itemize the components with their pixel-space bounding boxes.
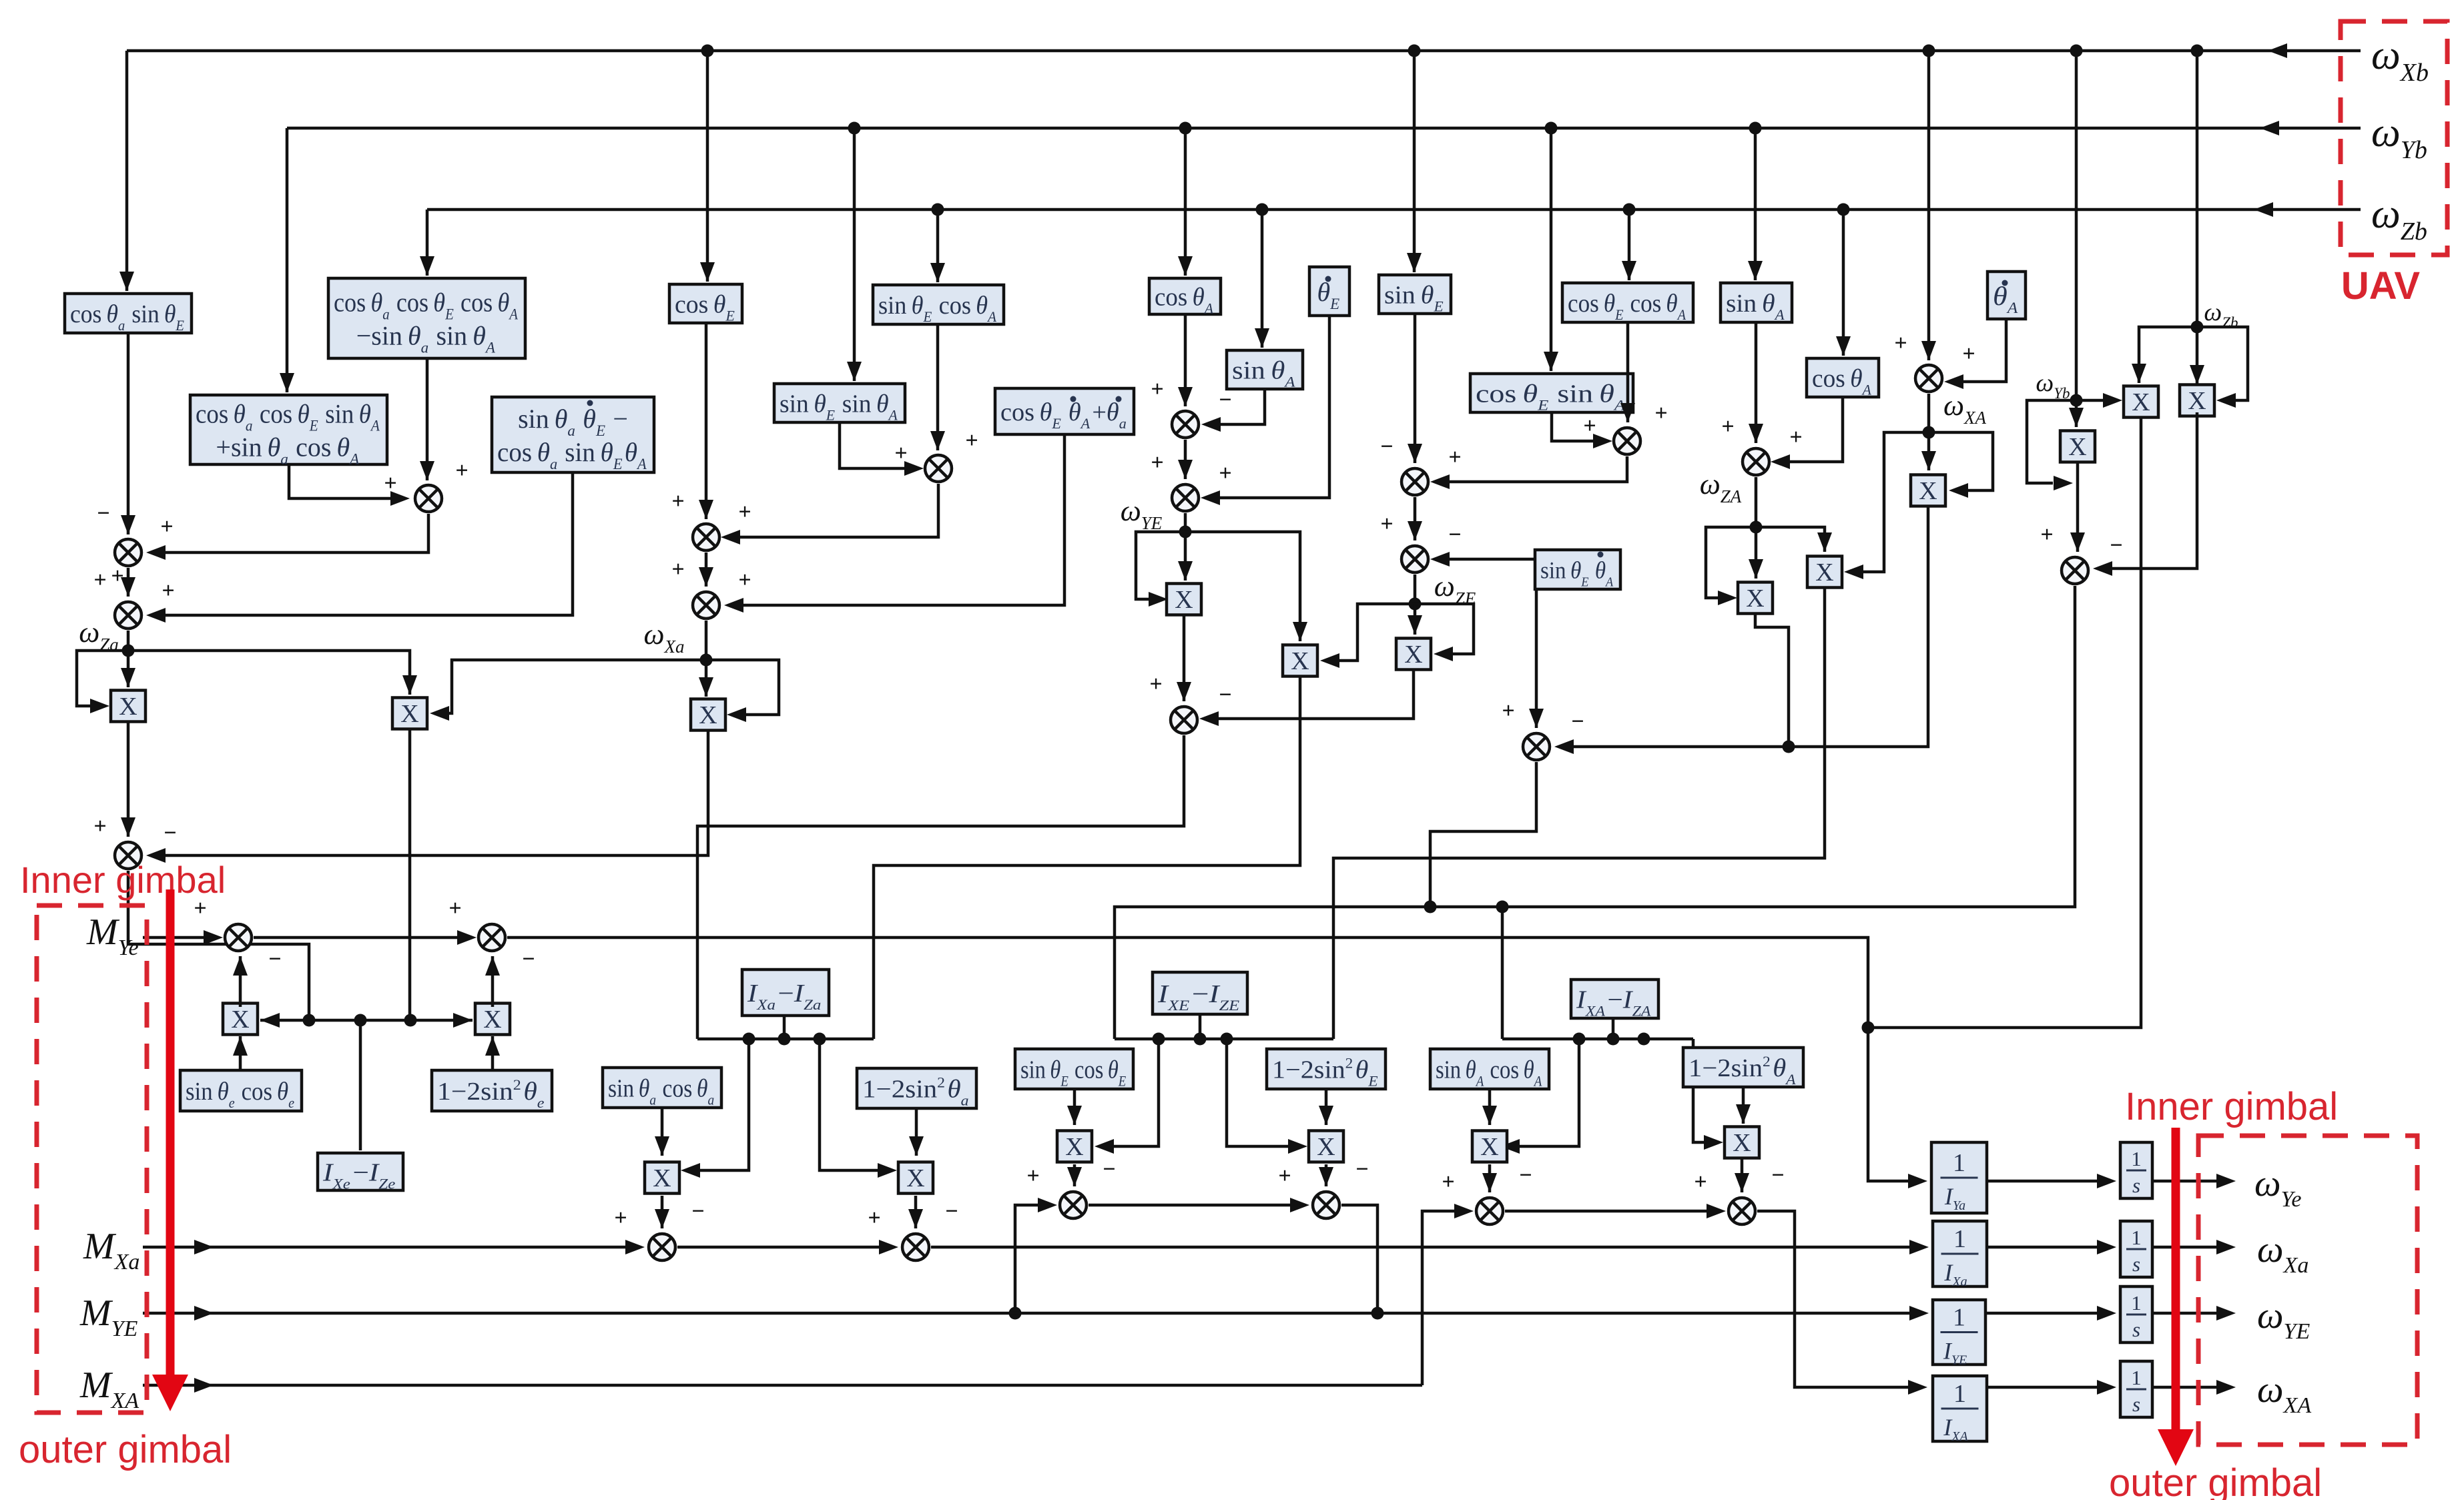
multiplier XA1b xyxy=(1472,1131,1507,1162)
wire S13 output / line C xyxy=(1115,586,2075,1039)
wire S15 output to busE xyxy=(128,871,309,1018)
wire XA2b into S24 xyxy=(1741,1158,1744,1192)
svg-text:+: + xyxy=(1380,512,1393,536)
svg-text:+: + xyxy=(448,896,461,921)
svg-text:X: X xyxy=(1919,477,1937,505)
multiplier XZA2 (wZA^2) xyxy=(1738,583,1773,614)
multiplier Xe2 xyxy=(475,1004,510,1035)
svg-text:X: X xyxy=(231,1006,249,1034)
svg-text:+: + xyxy=(1151,450,1163,475)
svg-text:−: − xyxy=(945,1199,958,1224)
wire S3 to node Za xyxy=(127,631,130,651)
wire drop to B16 xyxy=(1550,128,1553,371)
wire S1 to S2 xyxy=(164,514,428,552)
wire drop omega_Zb vertical xyxy=(2196,51,2199,327)
wire 1/s to wXa out xyxy=(2152,1246,2220,1249)
wire B9 to S11 xyxy=(1755,322,1758,443)
node dots on bus e xyxy=(303,1014,316,1027)
block B30 IXA-IZA xyxy=(1571,980,1658,1018)
label inner gimbal left dashed box xyxy=(37,905,147,1413)
wire B23 into Xa2 xyxy=(915,1108,918,1156)
svg-text:s: s xyxy=(2132,1393,2140,1416)
svg-text:+: + xyxy=(1278,1164,1291,1188)
wire drop to B4 xyxy=(936,210,940,282)
wire S25 to S4 xyxy=(738,484,938,537)
wire XA down into XXA2 xyxy=(1927,432,1931,470)
wire B25 into XE1b xyxy=(1073,1089,1076,1125)
node dots on bus A xyxy=(743,1033,755,1046)
wire drop to sum S12 xyxy=(1927,51,1931,360)
wire S9 to node ZE xyxy=(1414,575,1417,604)
svg-text:+: + xyxy=(1442,1170,1454,1194)
node omega_XA junction xyxy=(1923,426,1935,439)
wire omega_Xb bus xyxy=(127,49,2361,53)
label UAV dashed box xyxy=(2341,21,2447,255)
wire B18 to S9 xyxy=(1448,558,1535,561)
svg-text:−: − xyxy=(1571,709,1584,734)
svg-text:X: X xyxy=(1317,1133,1335,1161)
wire 1/IYa to 1/s xyxy=(1987,1180,2100,1183)
wire drop to cos-sin box B1 xyxy=(125,51,129,291)
wire M_Ye lead xyxy=(143,936,207,940)
wire B6 to S7 xyxy=(1218,316,1329,498)
wire B15 to S6 xyxy=(1217,389,1265,424)
wire XZb2 output to S13 xyxy=(2110,412,2197,569)
wire B3 to S4 xyxy=(705,323,708,519)
svg-text:1: 1 xyxy=(1953,1149,1965,1177)
wire 1/IXa to 1/s xyxy=(1987,1246,2100,1249)
svg-text:s: s xyxy=(2132,1252,2140,1276)
node join on MYe feed xyxy=(1862,1022,1875,1034)
svg-text:−: − xyxy=(1219,388,1231,412)
svg-text:−: − xyxy=(691,1199,704,1224)
wire B11 output xyxy=(289,464,394,498)
wire M_YE row xyxy=(143,1312,1911,1315)
svg-text:1: 1 xyxy=(2131,1147,2142,1170)
block B20 1-2sin2e xyxy=(432,1070,552,1111)
svg-text:X: X xyxy=(1175,586,1193,614)
wire S21 to S22 xyxy=(1089,1204,1293,1207)
wire M_Ye long run xyxy=(507,937,1910,1181)
svg-text:+: + xyxy=(868,1206,880,1230)
wire buse stem to B21 xyxy=(359,1020,362,1150)
block B1 cos(a)sin(E) xyxy=(65,294,192,333)
svg-text:+: + xyxy=(1219,461,1231,486)
wire XA1b into S23 xyxy=(1488,1164,1492,1192)
wire Xa loop left into X2 xyxy=(446,660,706,713)
wire riser to bus AA xyxy=(1501,907,1504,1039)
node omega_Yb junction xyxy=(2070,394,2083,407)
block B16 cosEsinA xyxy=(1470,374,1633,412)
svg-text:+: + xyxy=(384,471,396,496)
svg-text:X: X xyxy=(400,700,418,728)
block 1/s YE xyxy=(2120,1286,2152,1343)
node omega_YE junction xyxy=(1179,526,1192,538)
svg-text:−: − xyxy=(1219,683,1231,707)
sum S15 xyxy=(115,842,141,869)
block 1/IYa xyxy=(1931,1142,1987,1213)
block 1/IXa xyxy=(1933,1221,1987,1286)
wire B4 to S25 xyxy=(936,324,940,450)
wire bus I_Xa-I_Za xyxy=(697,1038,874,1041)
svg-text:+: + xyxy=(1502,699,1514,723)
multiplier XZ2 (wZE^2) xyxy=(1396,639,1431,670)
svg-text:+: + xyxy=(738,568,751,593)
svg-text:Inner gimbal: Inner gimbal xyxy=(20,859,226,901)
block 1/s Xa xyxy=(2120,1221,2152,1277)
svg-text:+: + xyxy=(1026,1164,1039,1188)
wire ZE down into XZ2 xyxy=(1414,604,1417,635)
svg-text:s: s xyxy=(2132,1318,2140,1341)
node junctions on omega_Zb bus xyxy=(932,204,944,216)
sum S25 xyxy=(925,455,952,482)
wire drop to B8 xyxy=(1628,210,1631,280)
wire XE1b into S21 xyxy=(1073,1164,1076,1186)
wire B7 to S8 xyxy=(1414,314,1417,463)
svg-text:+: + xyxy=(111,564,123,589)
block B18 sinE dA xyxy=(1535,550,1620,589)
wire busE2 stem to B27 xyxy=(1199,1016,1202,1039)
wire Xa down into X3 xyxy=(705,660,708,697)
node omega_Zb junction xyxy=(2191,321,2204,334)
wire B16 to S10 xyxy=(1552,412,1596,441)
svg-text:−: − xyxy=(97,501,109,526)
wire S19 to S20 xyxy=(677,1246,882,1249)
sum S13 xyxy=(2062,557,2088,584)
svg-text:+: + xyxy=(1789,425,1802,450)
node junctions on omega_Yb bus xyxy=(848,122,861,135)
wire ZE loop right into XZ2 xyxy=(1415,604,1474,654)
sum S19 xyxy=(649,1234,675,1260)
wire ZA right to XZAXA top xyxy=(1756,527,1825,552)
wire S8 to S9 xyxy=(1414,497,1417,540)
wire busA drop to Xa2 xyxy=(820,1039,881,1170)
svg-text:1: 1 xyxy=(2131,1291,2142,1315)
wire S22 down to MYE row xyxy=(1341,1205,1377,1313)
svg-text:+: + xyxy=(455,458,468,483)
node junctions on omega_Xb bus xyxy=(701,45,714,57)
svg-text:+: + xyxy=(614,1206,627,1230)
svg-text:+: + xyxy=(1448,445,1461,470)
wire busE2 drop to XE2b xyxy=(1227,1039,1291,1146)
block B29 1-2sin2A xyxy=(1683,1048,1803,1087)
wire bus I_XA-I_ZA xyxy=(1502,1038,1693,1041)
block B28 sinA cosA xyxy=(1430,1049,1549,1089)
wire S23 to S24 xyxy=(1505,1210,1710,1213)
svg-text:+: + xyxy=(738,500,751,524)
svg-text:X: X xyxy=(1733,1129,1751,1157)
svg-text:+: + xyxy=(1583,414,1596,438)
sum S16 xyxy=(1523,733,1550,760)
svg-text:+: + xyxy=(965,428,978,453)
wire ZA loop left into XZA2 xyxy=(1706,527,1756,598)
block B4 sinEcosA xyxy=(873,285,1004,324)
svg-text:X: X xyxy=(2188,387,2206,415)
wire busAA stem to B30 xyxy=(1612,1020,1615,1039)
label inner gimbal right dashed box xyxy=(2198,1136,2417,1445)
svg-text:X: X xyxy=(906,1164,924,1192)
wire busA drop to Xa1 xyxy=(698,1039,749,1170)
wire Xe2 up into S18 xyxy=(491,956,495,1007)
wire Yb loop left xyxy=(2027,400,2076,483)
block 1/s XA xyxy=(2120,1361,2152,1417)
wire bus I_XE-I_ZE xyxy=(1115,1038,1333,1041)
wire XZ2 output to S14 xyxy=(1217,670,1414,719)
svg-text:1: 1 xyxy=(1953,1225,1966,1253)
wire B10 to S12 xyxy=(1961,319,2006,382)
svg-text:X: X xyxy=(1065,1133,1083,1161)
block B25 sinE cosE xyxy=(1015,1049,1133,1089)
svg-text:outer gimbal: outer gimbal xyxy=(2109,1461,2322,1500)
node omega_Za junction xyxy=(122,645,135,657)
sum S11 xyxy=(1743,448,1769,475)
block B19 sine cose xyxy=(180,1070,302,1111)
wire B12 output to S3 xyxy=(164,472,573,615)
block B24 IXa-IZa xyxy=(742,970,829,1016)
node taps on MYE row xyxy=(1009,1307,1022,1320)
wire Zb loop left to XYbZb top xyxy=(2139,327,2197,383)
svg-text:1: 1 xyxy=(1953,1304,1965,1332)
wire XA loop left into XZAXA xyxy=(1859,432,1929,572)
wire 1/s to wYe out xyxy=(2152,1180,2220,1183)
wire M_Xa long run xyxy=(931,1246,1911,1249)
wire 1/IXA to 1/s xyxy=(1987,1386,2100,1389)
block B3 cosE xyxy=(669,284,742,323)
block B11 cosacosEsinA+sinacosA xyxy=(190,395,387,464)
svg-text:+: + xyxy=(93,568,106,593)
wire B8 to S10 xyxy=(1626,322,1630,422)
block B21 IXe-IZe xyxy=(318,1153,403,1190)
sum S7 xyxy=(1172,484,1199,511)
multiplier Xa1 xyxy=(645,1162,679,1194)
wire S6 to S7 xyxy=(1184,440,1187,479)
wire drop omega_Yb vertical xyxy=(2075,51,2078,427)
sum S9 xyxy=(1402,546,1428,573)
wire XY1 to S14 xyxy=(1183,615,1186,701)
label gimbal divider arrow (right) xyxy=(2172,1128,2180,1435)
sum S12 xyxy=(1915,365,1942,392)
wire drop to B11 xyxy=(286,128,289,392)
sum S17 xyxy=(225,924,252,951)
wire B13 to S25 xyxy=(840,422,908,468)
block 1/IYE xyxy=(1933,1300,1985,1365)
wire B26 into XE2b xyxy=(1325,1089,1328,1125)
wire 1/s to wXA out xyxy=(2152,1386,2220,1389)
wire X1 to S15 xyxy=(127,722,130,837)
sum S23 xyxy=(1476,1198,1503,1224)
svg-text:−: − xyxy=(1771,1163,1784,1188)
block B23 1-2sin2a xyxy=(857,1068,976,1108)
svg-text:−: − xyxy=(268,947,281,972)
wire drop to B2 xyxy=(426,210,429,276)
svg-text:X: X xyxy=(699,701,717,729)
wire S16 output to line C xyxy=(1430,762,1536,907)
wire XE2b into S22 xyxy=(1325,1164,1328,1186)
block B15 sinA xyxy=(1227,350,1303,389)
sum S22 xyxy=(1313,1192,1339,1218)
svg-text:X: X xyxy=(1291,647,1309,675)
svg-text:X: X xyxy=(2068,433,2086,461)
node omega_ZA junction xyxy=(1750,521,1763,534)
wire XYZ output long run xyxy=(874,677,1300,1039)
block B7 sinE xyxy=(1379,275,1451,314)
svg-text:+: + xyxy=(2040,522,2053,547)
label gimbal divider arrow (left) xyxy=(166,889,175,1381)
svg-text:+: + xyxy=(162,579,174,603)
svg-text:X: X xyxy=(653,1164,671,1192)
wire 1/IYE to 1/s xyxy=(1985,1312,2100,1315)
wire busA stem to B24 xyxy=(783,1017,786,1039)
svg-text:+: + xyxy=(1962,342,1975,366)
svg-text:+: + xyxy=(1721,414,1734,439)
multiplier X3 (wXa^2) xyxy=(691,699,725,731)
wire XA loop right into XXA2 xyxy=(1929,432,1993,490)
multiplier XXA2 (wXA^2) xyxy=(1911,475,1945,506)
wire busAA drop to XA2b xyxy=(1693,1039,1707,1142)
svg-text:UAV: UAV xyxy=(2341,264,2420,308)
multiplier X2 (wZa*wXa) xyxy=(392,698,427,729)
wire X3 output to S15 xyxy=(164,729,708,855)
multiplier XA2b xyxy=(1725,1127,1759,1158)
wire B14 to S5 xyxy=(741,434,1064,605)
wire B18 to S16 xyxy=(1535,589,1538,728)
node join XZA2/XXA2 xyxy=(1783,741,1795,753)
wire omega_Zb bus xyxy=(427,208,2361,212)
block B22 sina cosa xyxy=(603,1068,721,1108)
svg-text:+: + xyxy=(671,557,684,582)
wire S14 output long run xyxy=(697,735,1184,1039)
wire omega_Yb bus xyxy=(287,127,2361,130)
wire ZE loop left into XYZ xyxy=(1335,604,1415,661)
wire S11 to node ZA xyxy=(1755,477,1758,527)
node omega_ZE junction xyxy=(1409,598,1422,611)
svg-text:1: 1 xyxy=(1953,1380,1966,1408)
wire S17 to S18 xyxy=(254,936,460,940)
multiplier XZAXA (wZA*wXA) xyxy=(1807,556,1842,588)
wire 1/s to wYE out xyxy=(2152,1312,2220,1315)
block 1/s Ye xyxy=(2120,1142,2152,1198)
multiplier Xa2 xyxy=(898,1162,933,1194)
wire S7 to node YE xyxy=(1184,513,1187,532)
wire Xa1 into S19 xyxy=(661,1196,664,1228)
sum S8 xyxy=(1402,468,1428,495)
wire S4 to S5 xyxy=(705,552,708,587)
block B13 sinEsinA xyxy=(774,384,905,422)
wire Xa loop right into X3 xyxy=(706,660,779,715)
svg-text:X: X xyxy=(1404,641,1422,669)
svg-text:X: X xyxy=(1746,585,1764,613)
svg-text:X: X xyxy=(1480,1133,1498,1161)
svg-text:1: 1 xyxy=(2131,1366,2142,1389)
sum S6 xyxy=(1172,411,1199,438)
svg-text:−: − xyxy=(1380,434,1393,459)
block B5 cosA xyxy=(1149,278,1221,314)
block 1/IXA xyxy=(1933,1376,1987,1441)
block B12 sina dE - cosa sinE dA xyxy=(492,397,654,472)
svg-text:+: + xyxy=(160,514,173,539)
block B9 sinA xyxy=(1721,283,1792,322)
multiplier XYbZb (wYb*wZb) xyxy=(2124,386,2158,418)
wire S5 to node Xa xyxy=(705,621,708,660)
svg-text:−: − xyxy=(1355,1157,1368,1182)
wire busE2 drop to XE1b xyxy=(1111,1039,1159,1146)
sum S5 xyxy=(693,592,719,619)
block B17 cosA xyxy=(1807,358,1879,397)
wire XYbZb output long run xyxy=(1868,417,2141,1028)
wire XYb2 to S13 xyxy=(2076,462,2080,552)
wire YE down into XY1 xyxy=(1184,532,1187,581)
wire B2 to S1 xyxy=(426,358,429,480)
multiplier X1 (wZa^2) xyxy=(111,691,145,722)
svg-text:s: s xyxy=(2132,1174,2140,1197)
multiplier XYZ (wYE*wZE) xyxy=(1283,645,1317,677)
wire drop to cosA box B5 xyxy=(1184,128,1187,276)
wire S10 to S8 xyxy=(1448,456,1627,482)
svg-text:outer gimbal: outer gimbal xyxy=(19,1428,232,1471)
wire XXA2 output to S16 xyxy=(1572,507,1928,747)
svg-text:+: + xyxy=(1694,1170,1707,1194)
wire YE right to XYZ top xyxy=(1185,532,1300,641)
svg-text:+: + xyxy=(1894,331,1907,356)
node dots on bus AA xyxy=(1573,1033,1586,1046)
wire Xa2 into S20 xyxy=(914,1196,918,1228)
wire Xe1 up into S17 xyxy=(239,956,242,1007)
wire M_Xa lead xyxy=(143,1246,627,1249)
block B6 thetaE-dot xyxy=(1309,267,1349,316)
node dots on bus E2 xyxy=(1153,1033,1165,1046)
svg-text:X: X xyxy=(483,1006,501,1034)
block B26 1-2sin2E xyxy=(1267,1049,1385,1089)
multiplier XZb2 (wZb^2) xyxy=(2180,385,2214,416)
wire B19 up into Xe1 xyxy=(239,1036,242,1070)
wire S2 to S3 xyxy=(127,568,130,597)
block B27 IXE-IZE xyxy=(1153,972,1247,1014)
svg-text:−: − xyxy=(1448,522,1461,547)
block B14 cosE dA + da xyxy=(995,388,1134,434)
node omega_Xa junction xyxy=(700,654,713,667)
svg-text:+: + xyxy=(1654,401,1667,426)
wire bus I_Xe-I_Ze xyxy=(260,1019,473,1022)
svg-text:+: + xyxy=(1149,672,1162,697)
sum S21 xyxy=(1060,1192,1087,1218)
wire B17 to S11 xyxy=(1788,397,1843,462)
wire B5 to S6 xyxy=(1184,314,1187,406)
wire drop to sinE box B7 xyxy=(1413,51,1416,272)
sum S14 xyxy=(1171,707,1197,733)
svg-text:−: − xyxy=(164,821,176,845)
wire X2 output down to busE xyxy=(408,729,412,1018)
wire B22 into Xa1 xyxy=(661,1108,664,1156)
svg-text:+: + xyxy=(1151,377,1163,402)
sum S18 xyxy=(479,924,505,951)
multiplier XE2b xyxy=(1309,1131,1343,1162)
wire S24 down to XA feed xyxy=(1757,1211,1910,1387)
svg-text:−: − xyxy=(522,947,535,972)
wire drop to sinA box B9 xyxy=(1754,128,1757,280)
sum S24 xyxy=(1729,1198,1755,1224)
wire Yb right into XYbZb xyxy=(2076,399,2104,402)
wire MYE riser into S21 xyxy=(1015,1205,1041,1313)
svg-text:1: 1 xyxy=(2131,1226,2142,1249)
wire Za right to X2 top xyxy=(128,651,410,695)
wire drop to cosE box B3 xyxy=(706,51,709,282)
wire XZA2 output to minus line xyxy=(1755,614,1789,747)
sum S4 xyxy=(693,524,719,550)
wire busAA drop to XA1b xyxy=(1518,1039,1579,1146)
block B2 cosacosEcosA-sinasinA xyxy=(328,278,525,358)
wire MXA riser into S23 xyxy=(1422,1211,1458,1385)
sum S1 xyxy=(415,485,442,512)
